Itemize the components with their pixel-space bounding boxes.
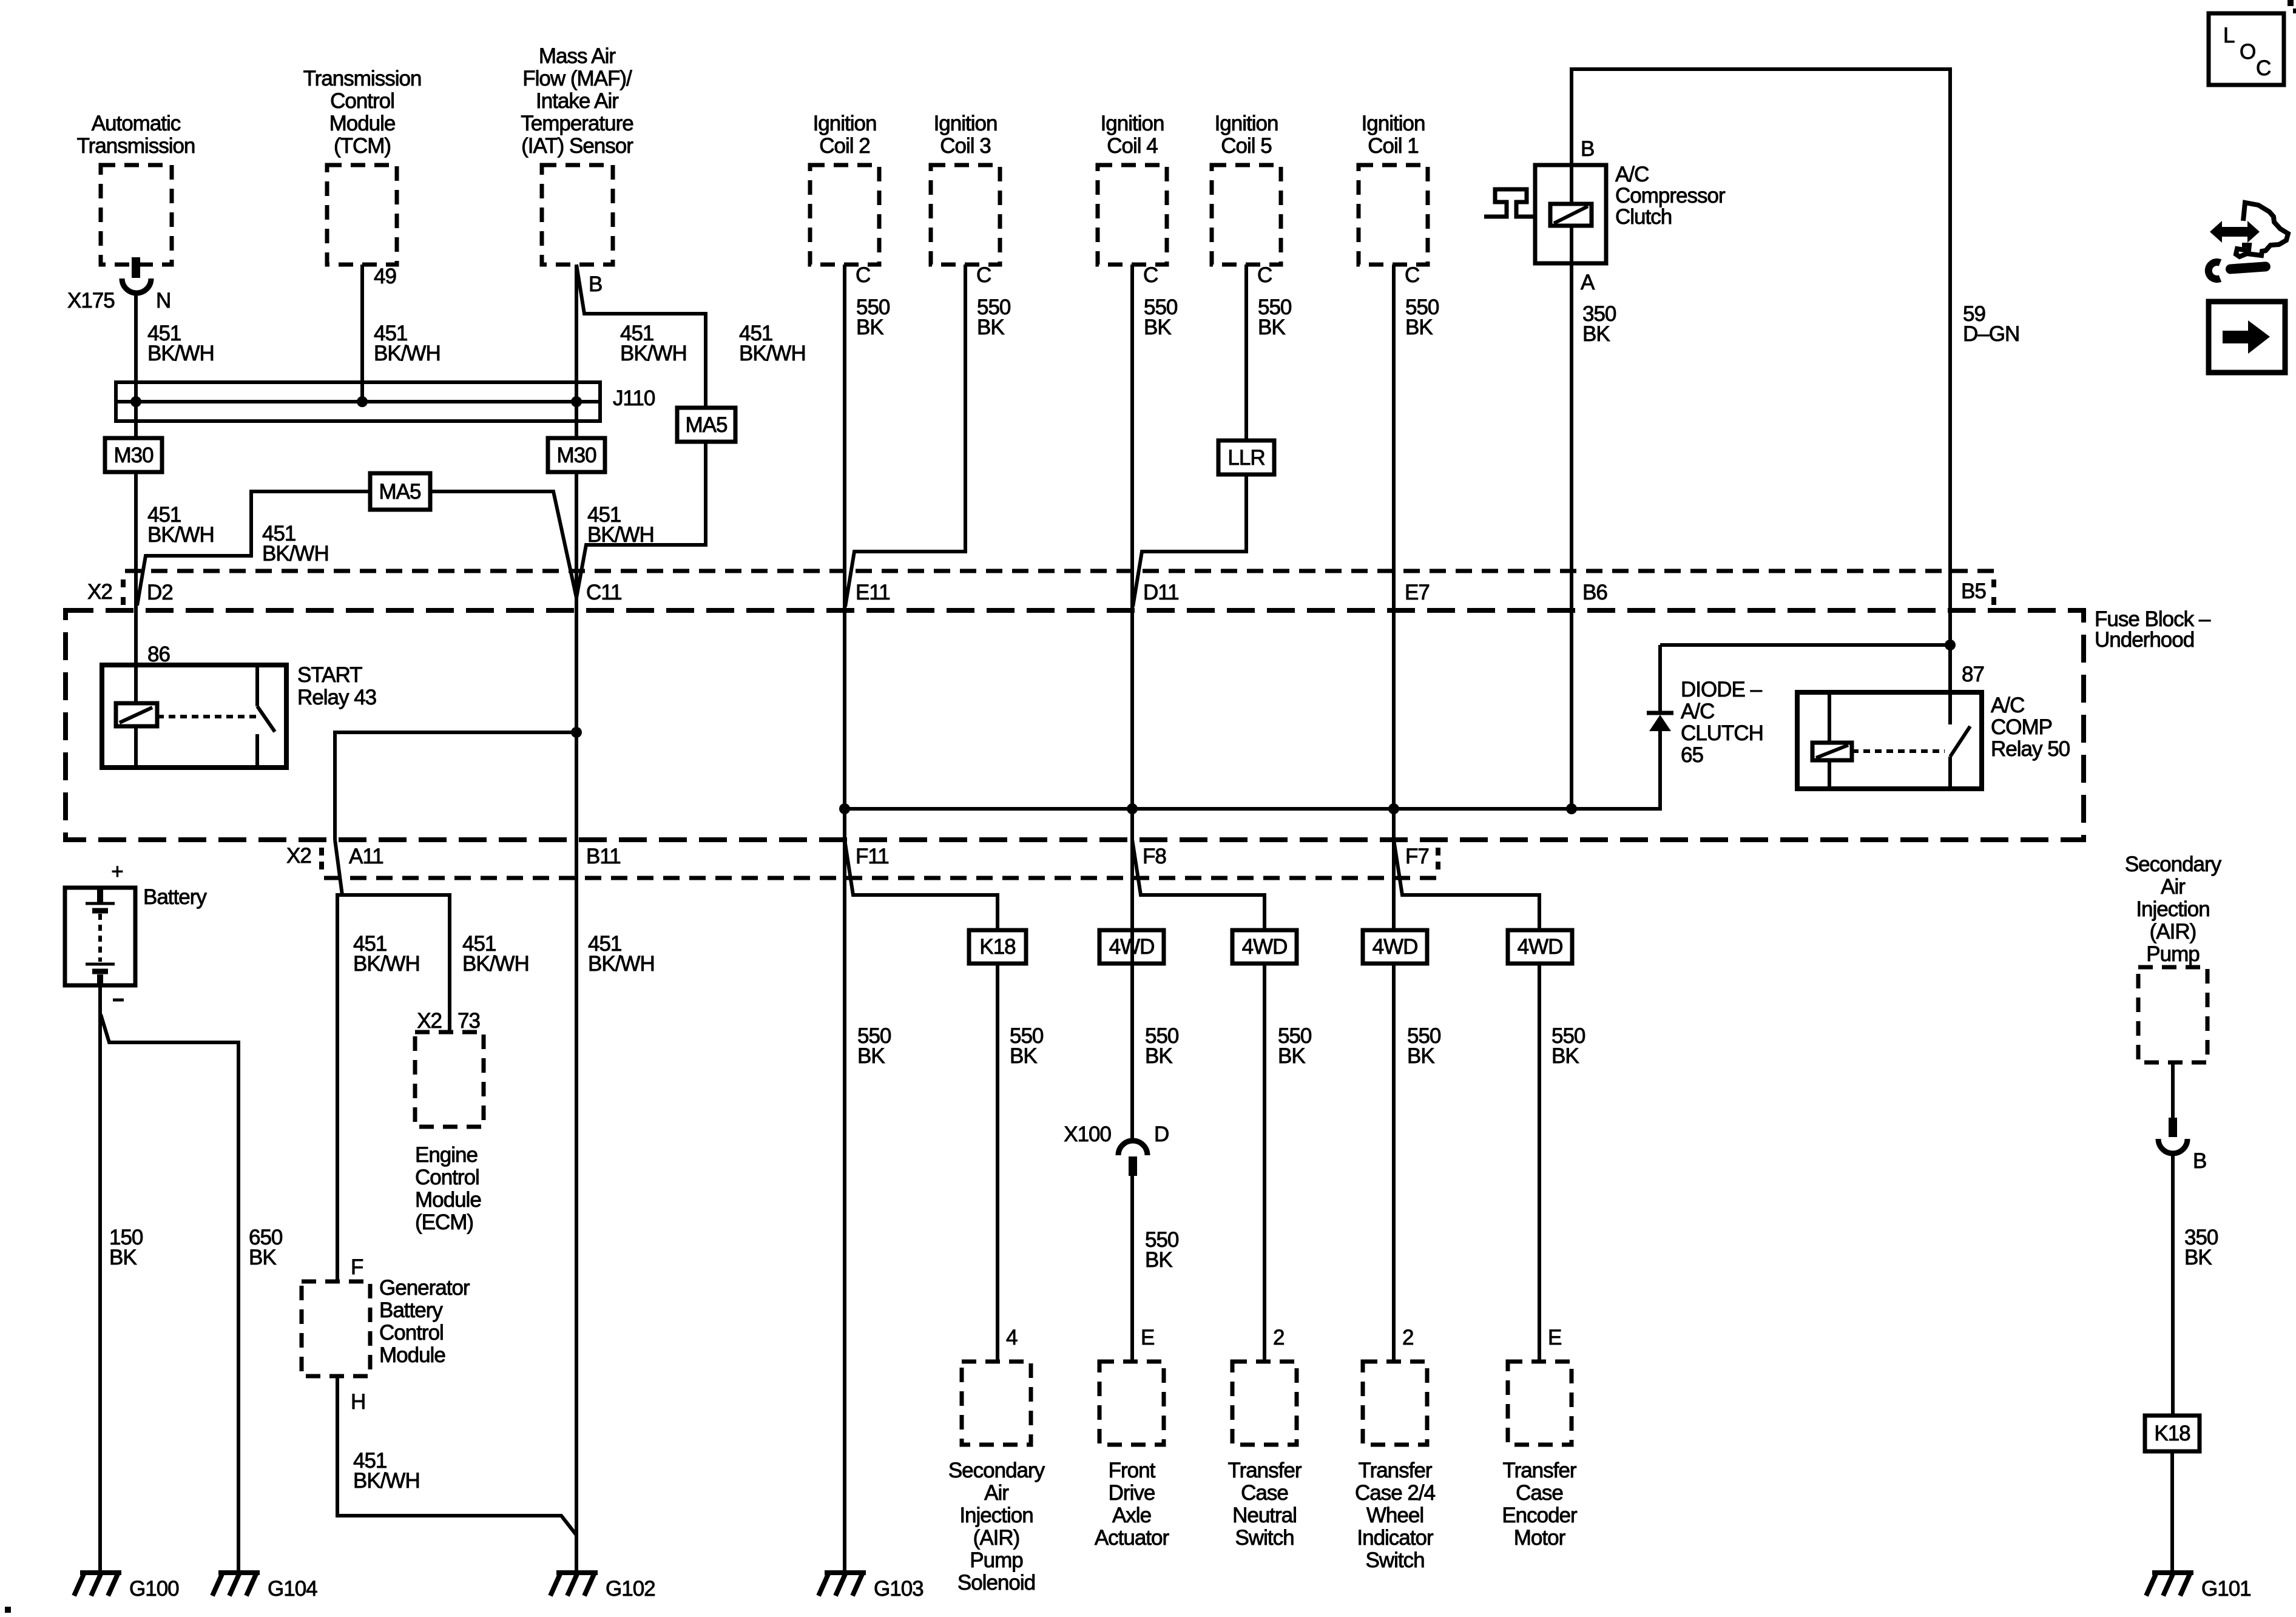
svg-text:F8: F8 [1143, 845, 1166, 868]
svg-text:B: B [1581, 137, 1594, 161]
splice pack J110 (bus bar) [116, 382, 600, 421]
svg-text:K18: K18 [2154, 1422, 2190, 1445]
svg-text:BK: BK [1144, 316, 1171, 339]
svg-text:E: E [1548, 1326, 1561, 1349]
wire 550 BK coil1 C to E7/F7 (x=2297) [1392, 265, 1396, 849]
svg-text:G102: G102 [606, 1577, 655, 1601]
wire 350 BK connector B to K18 [2171, 1152, 2175, 1416]
inline connector M30 (left) [105, 438, 162, 472]
svg-text:C: C [1257, 263, 1272, 287]
tick B5 right (top row) [1991, 579, 1996, 605]
component Transmission Control Module TCM (dashed box) [303, 67, 422, 265]
label 550 BK (coil1) [1405, 295, 1439, 339]
svg-text:(IAT) Sensor: (IAT) Sensor [521, 134, 633, 158]
svg-text:BK: BK [1405, 316, 1433, 339]
svg-text:Relay 50: Relay 50 [1991, 737, 2070, 761]
label 550 BK (front axle column) [1145, 1024, 1179, 1068]
label 451 BK/WH (B11 column) [588, 932, 655, 976]
wire 550 BK F7 down to 4WD [1392, 840, 1396, 930]
component Secondary Air Injection (AIR) Pump (dashed box) [2138, 967, 2207, 1062]
inline connector 4WD (TC 2/4 column) [1363, 930, 1427, 964]
label 650 BK [249, 1226, 283, 1269]
tick X2 (top row) [121, 579, 126, 605]
svg-text:Mass Air: Mass Air [539, 44, 616, 68]
svg-text:BK: BK [1407, 1044, 1434, 1068]
svg-text:Wheel: Wheel [1366, 1504, 1423, 1527]
relay START Relay 43 (box) [102, 665, 286, 768]
svg-text:E11: E11 [856, 581, 890, 604]
label A/C Compressor Clutch [1615, 163, 1726, 229]
svg-text:Switch: Switch [1365, 1548, 1424, 1572]
svg-text:49: 49 [374, 265, 396, 288]
battery (box with cells) [65, 888, 135, 985]
svg-text:Ignition: Ignition [934, 112, 998, 135]
svg-text:Coil 1: Coil 1 [1368, 134, 1418, 158]
wire 550 BK LLR joins D11 [1133, 474, 1246, 607]
svg-text:Case 2/4: Case 2/4 [1355, 1481, 1436, 1505]
component Engine Control Module ECM (dashed box) [415, 1032, 484, 1234]
component Ignition Coil 4 (dashed box) [1098, 112, 1167, 265]
svg-text:BK: BK [1551, 1044, 1579, 1068]
svg-text:CLUTCH: CLUTCH [1681, 721, 1763, 745]
icon forward-arrow box (right margin) [2209, 302, 2285, 373]
inline connector K18 (bottom right) [2145, 1416, 2200, 1451]
diode DIODE - A/C CLUTCH 65 [1647, 645, 1673, 731]
label 451 BK/WH (MA5 middle branch) [262, 522, 329, 565]
svg-text:C: C [2256, 56, 2271, 80]
junction dot bus-D11 [1127, 803, 1138, 814]
wire 451 BK/WH from TCM pin 49 to J110 bus (x=597) [360, 265, 364, 402]
svg-text:87: 87 [1962, 663, 1984, 686]
svg-text:MA5: MA5 [379, 480, 421, 504]
svg-text:F: F [351, 1255, 363, 1279]
connector X100 (pin D) [1064, 1122, 1169, 1176]
svg-text:Case: Case [1241, 1481, 1288, 1505]
svg-text:BK: BK [1010, 1044, 1037, 1068]
component A/C Compressor Clutch (solenoid box) [1484, 165, 1606, 263]
svg-text:B: B [589, 272, 602, 296]
svg-text:BK: BK [1145, 1248, 1172, 1272]
wire 350 BK K18 to G101 [2170, 1451, 2174, 1573]
svg-text:Air: Air [984, 1481, 1009, 1505]
svg-text:Battery: Battery [143, 885, 207, 909]
svg-text:B5: B5 [1961, 579, 1986, 603]
component Automatic Transmission (dashed box) [77, 112, 195, 265]
svg-text:B11: B11 [586, 845, 621, 868]
svg-text:A/C: A/C [1681, 700, 1714, 723]
label Secondary Air Injection (AIR) Pump [2125, 852, 2222, 966]
svg-text:BK: BK [1278, 1044, 1305, 1068]
inline connector K18 (top) [969, 930, 1026, 964]
svg-text:2: 2 [1273, 1326, 1284, 1349]
svg-text:O: O [2240, 40, 2255, 64]
svg-text:Control: Control [415, 1166, 479, 1189]
wire branch IAT-B to MA5 (diagonal+horizontal to x=1163) [576, 265, 706, 408]
connector B (AIR pump) [2158, 1118, 2206, 1173]
svg-text:Transfer: Transfer [1227, 1459, 1302, 1482]
svg-text:+: + [111, 860, 123, 883]
label 451 BK/WH (C11 column) [620, 322, 687, 365]
svg-text:A11: A11 [349, 845, 383, 868]
wire AIR pump to connector B [2171, 1062, 2175, 1119]
svg-text:C11: C11 [586, 581, 622, 604]
svg-text:Compressor: Compressor [1615, 184, 1726, 208]
ground G101 [2146, 1573, 2251, 1601]
svg-text:Transfer: Transfer [1358, 1459, 1432, 1482]
svg-text:Battery: Battery [379, 1298, 443, 1322]
svg-text:(ECM): (ECM) [415, 1210, 473, 1234]
svg-text:Motor: Motor [1514, 1526, 1566, 1550]
wire 550 BK X100 to Front Drive Axle Actuator [1130, 1176, 1134, 1362]
wire 650 BK branch to G104 [101, 1014, 238, 1573]
tick X2 (bottom row) [319, 848, 324, 869]
svg-text:BK: BK [1582, 322, 1610, 346]
svg-text:BK/WH: BK/WH [262, 542, 329, 565]
svg-text:Automatic: Automatic [92, 112, 181, 135]
svg-text:C: C [856, 263, 870, 287]
label 550 BK (below X100) [1145, 1228, 1179, 1272]
junction dot bus-E7 [1388, 803, 1399, 814]
wire 550 BK to Transfer Case 2/4 Wheel Indicator Switch [1392, 964, 1396, 1362]
svg-text:Transfer: Transfer [1502, 1459, 1576, 1482]
svg-text:Underhood: Underhood [2095, 628, 2194, 652]
svg-text:Injection: Injection [2136, 897, 2209, 921]
svg-text:Control: Control [330, 89, 394, 113]
label 59 D-GN [1963, 302, 2019, 346]
junction dot at C11/relay branch [571, 727, 582, 738]
icon LOC box (top right) [2209, 13, 2284, 85]
inline connector M30 (right) [548, 438, 605, 472]
svg-text:C: C [976, 263, 991, 287]
svg-text:Front: Front [1109, 1459, 1156, 1482]
svg-text:F11: F11 [856, 845, 889, 868]
page mark (top right) [2288, 0, 2294, 6]
wire F8 branch to 4WD (TCNS) [1132, 840, 1264, 930]
wire MA5 middle right branch to C11 wire [430, 491, 576, 598]
svg-text:BK: BK [856, 316, 883, 339]
wire F7 branch to 4WD (encoder column) [1394, 840, 1539, 930]
wire 451 BK/WH from IAT pin B down through J110/M30/C11 (x=950) [575, 265, 578, 1573]
svg-text:4WD: 4WD [1242, 935, 1288, 959]
label 350 BK (A/C clutch A) [1582, 302, 1616, 346]
ground G104 [212, 1573, 317, 1601]
junction dot J110-AT [130, 396, 141, 407]
svg-text:Solenoid: Solenoid [957, 1571, 1035, 1595]
svg-text:73: 73 [458, 1009, 480, 1033]
junction dot bus-B6 [1566, 803, 1577, 814]
svg-text:X2: X2 [286, 844, 311, 868]
svg-text:BK/WH: BK/WH [353, 1469, 420, 1493]
svg-text:65: 65 [1681, 743, 1703, 767]
svg-text:N: N [156, 289, 171, 312]
junction dot J110-TCM [357, 396, 368, 407]
component Generator Battery Control Module (dashed box) [302, 1281, 370, 1376]
svg-text:Engine: Engine [415, 1143, 478, 1167]
label Fuse Block - Underhood [2095, 607, 2211, 652]
svg-text:BK/WH: BK/WH [587, 523, 654, 547]
svg-text:X175: X175 [67, 289, 115, 312]
svg-text:BK: BK [249, 1246, 276, 1269]
Fuse Block - Underhood (dashed outline) [66, 610, 2084, 840]
svg-text:G103: G103 [874, 1577, 923, 1601]
svg-text:L: L [2223, 24, 2235, 47]
svg-text:Pump: Pump [2146, 942, 2199, 966]
svg-text:B6: B6 [1582, 581, 1607, 604]
svg-text:E: E [1141, 1326, 1154, 1349]
svg-text:Control: Control [379, 1321, 444, 1345]
wire diode top to relay 50 pin 87 (y=1063) [1660, 643, 1950, 647]
component Ignition Coil 1 (dashed box) [1359, 112, 1428, 265]
component Transfer Case Neutral Switch (dashed box) [1227, 1362, 1302, 1550]
svg-text:Actuator: Actuator [1095, 1526, 1170, 1550]
junction dot 87 feed [1945, 640, 1956, 650]
connector X175 (pin N) [67, 257, 171, 312]
svg-text:Intake Air: Intake Air [536, 89, 619, 113]
svg-text:C: C [1405, 263, 1419, 287]
svg-text:BK: BK [1145, 1044, 1172, 1068]
svg-text:4WD: 4WD [1518, 935, 1563, 959]
svg-text:Coil 4: Coil 4 [1107, 134, 1158, 158]
svg-text:Switch: Switch [1235, 1526, 1294, 1550]
label DIODE - A/C CLUTCH 65 [1681, 678, 1763, 767]
wire 550 BK F8 down to X100 [1130, 840, 1134, 1142]
svg-text:BK/WH: BK/WH [588, 952, 655, 976]
junction dot bus-E11 [839, 803, 850, 814]
label 451 BK/WH (GBCM H) [353, 1449, 420, 1493]
label 550 BK (coil5) [1258, 295, 1292, 339]
label 451 BK/WH (left M30 below) [147, 503, 214, 547]
svg-text:Ignition: Ignition [1215, 112, 1278, 135]
svg-text:X2: X2 [417, 1009, 442, 1033]
svg-text:K18: K18 [979, 935, 1015, 959]
svg-text:Injection: Injection [959, 1504, 1033, 1527]
tick F7 right (bottom row) [1436, 848, 1440, 869]
svg-text:Drive: Drive [1109, 1481, 1155, 1505]
ground G102 [550, 1573, 655, 1601]
svg-text:C: C [1143, 263, 1158, 287]
component Ignition Coil 2 (dashed box) [810, 112, 879, 265]
svg-text:Module: Module [329, 112, 396, 135]
connector row X2 upper dashed line [125, 569, 1994, 573]
wire 451 BK/WH from X175 N to J110/M30/D2 (x=224) [134, 291, 138, 703]
wire B5 to relay 50 switch [1948, 571, 1952, 724]
label 550 BK (TC 2/4 column) [1407, 1024, 1441, 1068]
wire MA5 right column to C11 (x=1163) [576, 442, 706, 598]
svg-text:B: B [2193, 1149, 2206, 1173]
svg-text:(TCM): (TCM) [334, 134, 391, 158]
svg-text:BK/WH: BK/WH [374, 342, 441, 365]
svg-text:Secondary: Secondary [948, 1459, 1045, 1482]
label Generator Battery Control Module [379, 1276, 470, 1367]
label - (battery negative) [113, 999, 124, 1002]
junction dot J110-MAF [571, 396, 582, 407]
component Transfer Case 2/4 Wheel Indicator Switch (dashed box) [1355, 1362, 1436, 1572]
svg-text:Coil 2: Coil 2 [819, 134, 869, 158]
svg-text:A: A [1581, 271, 1595, 294]
svg-text:DIODE –: DIODE – [1681, 678, 1763, 701]
component Ignition Coil 3 (dashed box) [931, 112, 1000, 265]
svg-text:Coil 5: Coil 5 [1221, 134, 1271, 158]
svg-text:BK/WH: BK/WH [147, 342, 214, 365]
label 550 BK (K18 column) [1010, 1024, 1044, 1068]
label 550 BK (F11) [857, 1024, 891, 1068]
svg-text:MA5: MA5 [686, 413, 728, 437]
svg-text:M30: M30 [556, 444, 596, 467]
inline connector MA5 (middle) [370, 473, 430, 510]
svg-text:G100: G100 [129, 1577, 179, 1601]
svg-text:G104: G104 [268, 1577, 317, 1601]
page mark (bottom left) [5, 1607, 11, 1613]
svg-text:Temperature: Temperature [521, 112, 633, 135]
icon component-locator (arrow, outline, wrench) [2209, 203, 2288, 279]
label 150 BK [109, 1226, 143, 1269]
label 451 BK/WH (AT column) [147, 322, 214, 365]
wire 550 BK coil2 C to E11/F11/G103 (x=1392) [843, 265, 846, 849]
svg-text:4WD: 4WD [1373, 935, 1418, 959]
svg-text:Neutral: Neutral [1232, 1504, 1297, 1527]
ground G103 [819, 1573, 923, 1601]
svg-text:(AIR): (AIR) [2150, 920, 2196, 944]
svg-text:Module: Module [379, 1343, 445, 1367]
wire 550 BK 4WD to Transfer Case Encoder Motor [1538, 964, 1541, 1362]
svg-text:X2: X2 [87, 580, 112, 604]
label 550 BK (coil3) [977, 295, 1011, 339]
svg-text:BK/WH: BK/WH [620, 342, 687, 365]
svg-text:Clutch: Clutch [1615, 205, 1672, 229]
svg-text:Case: Case [1516, 1481, 1563, 1505]
svg-text:START: START [297, 663, 362, 687]
wire 350 BK from A to B6 [1570, 263, 1573, 809]
svg-text:A/C: A/C [1615, 163, 1649, 186]
wire switched output to C11 junction [335, 732, 576, 840]
svg-text:H: H [351, 1390, 365, 1414]
svg-text:BK: BK [1258, 316, 1285, 339]
wire 550 BK coil5 C to LLR [1244, 265, 1248, 441]
component Secondary Air Injection (AIR) Pump Solenoid (dashed box) [948, 1362, 1045, 1595]
svg-text:J110: J110 [613, 387, 655, 410]
svg-text:Ignition: Ignition [813, 112, 877, 135]
wire A11 to ECM and GBCM [335, 840, 450, 1281]
svg-text:F7: F7 [1405, 845, 1429, 868]
svg-text:Generator: Generator [379, 1276, 470, 1300]
svg-text:D: D [1154, 1122, 1169, 1146]
svg-text:Ignition: Ignition [1362, 112, 1425, 135]
svg-text:2: 2 [1402, 1326, 1413, 1349]
svg-text:BK: BK [857, 1044, 885, 1068]
label A/C COMP Relay 50 [1991, 694, 2070, 761]
inline connector 4WD (transfer case neutral column) [1232, 930, 1297, 964]
svg-text:X100: X100 [1064, 1122, 1111, 1146]
svg-text:(AIR): (AIR) [973, 1526, 1020, 1550]
wire F11 branch to K18 [845, 840, 998, 930]
svg-text:Ignition: Ignition [1101, 112, 1164, 135]
label 550 BK (coil2) [856, 295, 890, 339]
inline connector LLR [1218, 441, 1274, 474]
svg-text:Indicator: Indicator [1357, 1526, 1434, 1550]
svg-text:BK: BK [109, 1246, 137, 1269]
svg-text:Relay 43: Relay 43 [297, 686, 376, 709]
svg-text:Encoder: Encoder [1502, 1504, 1578, 1527]
label START Relay 43 [297, 663, 376, 709]
component Transfer Case Encoder Motor (dashed box) [1502, 1362, 1578, 1550]
svg-text:Flow (MAF)/: Flow (MAF)/ [522, 67, 632, 90]
wire 550 BK F11 to G103 [843, 840, 846, 1573]
connector row X2 lower dashed line [324, 876, 1438, 880]
svg-text:BK: BK [2184, 1246, 2212, 1269]
svg-text:4WD: 4WD [1109, 935, 1155, 959]
svg-text:D2: D2 [147, 581, 173, 604]
svg-text:M30: M30 [113, 444, 154, 467]
wire ground bus inside fuse block (y=1333) [845, 730, 1660, 809]
wire MA5 middle left branch to D2 wire [137, 491, 370, 606]
svg-text:D11: D11 [1143, 581, 1179, 604]
wire 550 BK 4WD to Transfer Case Neutral Switch [1263, 964, 1266, 1362]
svg-text:BK/WH: BK/WH [739, 342, 806, 365]
svg-text:Pump: Pump [970, 1548, 1022, 1572]
svg-text:Transmission: Transmission [77, 134, 195, 158]
label 451 BK/WH (A11/GBCM) [353, 932, 420, 976]
inline connector MA5 (right column) [677, 408, 735, 442]
wire top feed horizontal (B to 59 D-GN) [1572, 69, 1950, 571]
svg-text:Module: Module [415, 1188, 481, 1212]
svg-text:BK/WH: BK/WH [147, 523, 214, 547]
label 550 BK (encoder column) [1551, 1024, 1585, 1068]
label 350 BK (AIR pump) [2184, 1226, 2218, 1269]
svg-text:Air: Air [2161, 875, 2186, 899]
inline connector 4WD (encoder motor column) [1508, 930, 1572, 964]
svg-text:BK/WH: BK/WH [462, 952, 529, 976]
svg-text:D–GN: D–GN [1963, 322, 2019, 346]
svg-text:Secondary: Secondary [2125, 852, 2222, 876]
wire 550 BK coil3 C joins E11 [845, 265, 965, 607]
svg-text:Coil 3: Coil 3 [940, 134, 990, 158]
label 550 BK (coil4) [1144, 295, 1178, 339]
component MAF/IAT Sensor (dashed box) [521, 44, 633, 265]
svg-text:E7: E7 [1405, 581, 1430, 604]
svg-text:COMP: COMP [1991, 715, 2052, 739]
label 451 BK/WH (TCM column) [374, 322, 441, 365]
svg-text:LLR: LLR [1227, 446, 1264, 470]
inline connector 4WD (front axle column) [1099, 930, 1164, 964]
svg-text:A/C: A/C [1991, 694, 2024, 717]
relay A/C COMP Relay 50 (box) [1797, 692, 1982, 789]
svg-text:G101: G101 [2201, 1577, 2251, 1601]
svg-text:Axle: Axle [1112, 1504, 1151, 1527]
label 451 BK/WH (ECM branch) [462, 932, 529, 976]
ground G100 [74, 1573, 179, 1601]
svg-text:4: 4 [1006, 1326, 1018, 1349]
svg-text:BK/WH: BK/WH [353, 952, 420, 976]
pin labels X2 73 (ECM) [417, 1009, 480, 1033]
wire 550 BK coil4 C to D11/F8 (x=1866) [1130, 265, 1134, 849]
wire 150 BK battery negative to G100 [98, 985, 102, 1573]
wire 451 BK/WH GBCM H to G102 [337, 1376, 576, 1535]
component Ignition Coil 5 (dashed box) [1212, 112, 1281, 265]
svg-text:BK: BK [977, 316, 1004, 339]
svg-text:Transmission: Transmission [303, 67, 422, 90]
wire 550 BK K18 to AIR pump solenoid [996, 964, 999, 1362]
component Front Drive Axle Actuator (dashed box) [1095, 1362, 1170, 1550]
label 451 BK/WH (right M30 below) [587, 503, 654, 547]
label 451 BK/WH (MA5 branch) [739, 322, 806, 365]
label 550 BK (TC neutral column) [1278, 1024, 1312, 1068]
